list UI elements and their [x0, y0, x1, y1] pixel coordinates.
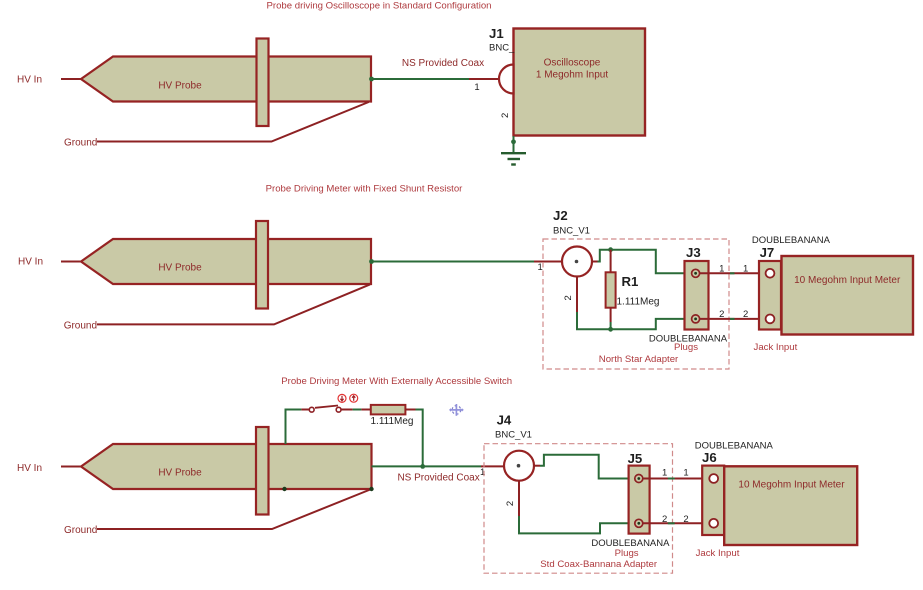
svg-text:DOUBLEBANANA: DOUBLEBANANA	[752, 235, 831, 246]
svg-text:1: 1	[474, 82, 479, 93]
svg-text:Std Coax-Bannana Adapter: Std Coax-Bannana Adapter	[540, 559, 658, 570]
net NS Provided Coax wire	[372, 465, 482, 467]
junction on probe bottom edge	[282, 487, 286, 491]
wire J4 pin2 to J5 pin2	[519, 516, 635, 533]
svg-text:J3: J3	[686, 245, 701, 260]
svg-text:J4: J4	[497, 413, 512, 428]
wire J2 pin 1 right stub	[592, 261, 598, 263]
connector J7 body	[759, 261, 781, 330]
switch actuator down symbol	[338, 394, 346, 402]
junction at probe output	[369, 259, 374, 264]
wire R1 to bottom rail	[610, 322, 612, 329]
wire R1 top lead	[610, 250, 612, 273]
svg-text:2: 2	[563, 295, 574, 300]
svg-text:10 Megohm Input Meter: 10 Megohm Input Meter	[794, 275, 901, 286]
net segment on wire 2	[668, 522, 675, 524]
svg-text:1: 1	[683, 468, 688, 479]
wire HV In lead	[61, 466, 82, 468]
wire J2 pin 2 lead	[576, 277, 578, 313]
net segment on wire 1	[668, 478, 675, 480]
svg-text:BNC_: BNC_	[489, 43, 515, 54]
wire bottom rail	[577, 312, 692, 329]
net NS Provided Coax wire	[371, 78, 469, 80]
svg-text:Jack Input: Jack Input	[696, 548, 740, 559]
dashed box North Star Adapter	[543, 239, 729, 369]
wire stub to J2 pin 1	[534, 261, 563, 263]
J7 pin 2	[766, 315, 775, 324]
svg-text:2: 2	[683, 514, 688, 525]
wire R1 bottom lead	[610, 308, 612, 322]
svg-text:HV In: HV In	[17, 75, 42, 86]
svg-text:North Star Adapter: North Star Adapter	[599, 354, 679, 365]
svg-text:J6: J6	[702, 450, 717, 465]
junction on ground wire	[511, 139, 516, 144]
net segment on wire 2	[730, 318, 735, 320]
svg-text:Jack Input: Jack Input	[754, 342, 798, 353]
wire stub to J4 pin 1	[481, 465, 505, 467]
J7 pin 1	[766, 269, 775, 278]
dashed box Std Coax-Bannana Adapter	[484, 444, 673, 574]
J2 center dot	[575, 260, 579, 264]
wire stub to J1 pin 1	[469, 78, 500, 80]
junction at probe bottom right	[369, 487, 373, 491]
switch actuator up symbol	[350, 394, 358, 402]
svg-text:DOUBLEBANANA: DOUBLEBANANA	[695, 441, 774, 452]
meter box 10 Megohm Input Meter	[782, 256, 914, 335]
net segment on wire 1	[730, 272, 735, 274]
svg-text:2: 2	[505, 501, 516, 506]
J4 center dot	[517, 464, 521, 468]
svg-text:R1: R1	[622, 274, 639, 289]
wire switch throw stub	[341, 409, 353, 411]
svg-text:Probe driving Oscilloscope in: Probe driving Oscilloscope in Standard C…	[266, 1, 491, 12]
probe flange	[257, 39, 269, 127]
wire J4 pin 2 lead	[518, 481, 520, 516]
connector J5 body	[629, 466, 650, 534]
svg-text:J1: J1	[489, 26, 504, 41]
wire J4 pin1 to J5 pin1	[540, 455, 635, 479]
wire ground	[97, 489, 372, 529]
junction at R1 bottom	[608, 327, 613, 332]
wire ground	[97, 284, 370, 324]
wire from probe top to switch	[286, 410, 302, 445]
wire J5.1 to J6.1	[643, 478, 709, 480]
probe HV Probe body	[81, 239, 371, 284]
svg-text:1: 1	[743, 264, 748, 275]
svg-text:NS Provided Coax: NS Provided Coax	[402, 58, 484, 69]
J3 pin 2	[692, 315, 700, 323]
wire HV In lead	[61, 78, 82, 80]
connector J4 BNC_V1	[504, 451, 534, 481]
J5 pin 2	[635, 519, 643, 527]
J5 pin 1	[635, 475, 643, 483]
wire ground	[97, 102, 369, 142]
svg-text:Probe Driving Meter with Fixed: Probe Driving Meter with Fixed Shunt Res…	[266, 184, 464, 195]
switch lever	[315, 406, 338, 408]
svg-text:1: 1	[662, 468, 667, 479]
svg-text:1.111Meg: 1.111Meg	[617, 297, 660, 308]
svg-text:J7: J7	[760, 245, 775, 260]
svg-text:HV Probe: HV Probe	[158, 81, 202, 92]
wire to ground	[513, 136, 515, 152]
svg-text:HV In: HV In	[18, 257, 43, 268]
junction at main net	[420, 464, 425, 469]
junction at R1 top	[608, 247, 613, 252]
wire J3.1 to J7.1	[700, 272, 765, 274]
svg-text:BNC_V1: BNC_V1	[495, 430, 532, 441]
wire J5.2 to J6.2	[643, 522, 709, 524]
net coax wire (green)	[371, 261, 534, 263]
svg-text:2: 2	[662, 514, 667, 525]
wire net segment to resistor	[353, 409, 362, 411]
svg-text:2: 2	[719, 309, 724, 320]
svg-text:Oscilloscope: Oscilloscope	[544, 58, 601, 69]
resistor R1	[606, 272, 616, 307]
svg-text:1: 1	[719, 264, 724, 275]
svg-text:2: 2	[500, 113, 511, 118]
oscilloscope box	[514, 29, 646, 136]
ground symbol	[501, 153, 526, 164]
svg-text:1 Megohm Input: 1 Megohm Input	[536, 70, 608, 81]
probe flange	[256, 427, 269, 515]
wire J4 pin 1 right stub	[534, 465, 541, 467]
svg-text:BNC_V1: BNC_V1	[553, 226, 590, 237]
svg-text:J5: J5	[628, 451, 643, 466]
svg-text:Plugs: Plugs	[615, 548, 639, 559]
resistor 1.111Meg	[371, 405, 406, 415]
svg-text:Probe Driving Meter With Exter: Probe Driving Meter With Externally Acce…	[281, 376, 512, 387]
svg-text:HV In: HV In	[17, 463, 42, 474]
cursor crosshair artifact	[449, 404, 464, 416]
J6 pin 2	[709, 519, 718, 528]
J3 pin 1	[692, 269, 700, 277]
svg-text:HV Probe: HV Probe	[158, 263, 202, 274]
connector J6 body	[702, 466, 724, 535]
wire HV In lead	[61, 261, 82, 263]
wire stub switch pole	[301, 409, 310, 411]
J6 pin 1	[709, 474, 718, 483]
switch throw contact	[336, 407, 341, 412]
svg-text:Ground: Ground	[64, 525, 97, 536]
wire J3.2 to J7.2	[700, 318, 765, 320]
svg-text:Ground: Ground	[64, 138, 97, 149]
svg-text:1: 1	[538, 262, 543, 273]
svg-text:2: 2	[743, 309, 748, 320]
wire J2 pin1 to top rail	[598, 250, 692, 274]
wire resistor to main net	[416, 410, 423, 467]
svg-text:HV Probe: HV Probe	[158, 467, 202, 478]
probe flange	[256, 221, 268, 309]
junction at probe output	[369, 77, 374, 82]
svg-text:Plugs: Plugs	[674, 342, 698, 353]
svg-text:1.111Meg: 1.111Meg	[371, 416, 414, 427]
connector J3 body	[685, 261, 709, 330]
wire resistor left lead	[361, 409, 370, 411]
svg-text:NS Provided Coax: NS Provided Coax	[397, 473, 479, 484]
probe HV Probe body	[81, 57, 371, 102]
probe HV Probe body	[81, 444, 372, 489]
meter box 10 Megohm Input Meter	[724, 466, 857, 545]
svg-text:10 Megohm Input Meter: 10 Megohm Input Meter	[738, 480, 845, 491]
connector J1 BNC	[499, 65, 514, 94]
switch pole contact	[309, 407, 314, 412]
svg-text:Ground: Ground	[64, 320, 97, 331]
connector J2 BNC_V1	[562, 247, 592, 277]
svg-text:J2: J2	[553, 208, 568, 223]
wire resistor right lead	[405, 409, 415, 411]
